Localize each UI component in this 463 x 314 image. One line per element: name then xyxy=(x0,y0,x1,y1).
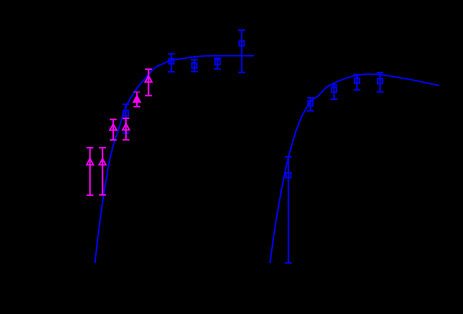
right data point R3 error bar xyxy=(331,85,338,99)
right data point R1 marker (open square) xyxy=(286,173,291,178)
left panel fit curve xyxy=(95,56,254,263)
left data point S4 error bar xyxy=(214,58,221,69)
left magenta point T4 marker (open triangle) xyxy=(123,124,130,130)
left data point S2 marker (open square) xyxy=(169,59,174,64)
left data point S2 error bar xyxy=(168,54,175,72)
left data point S1 error bar xyxy=(122,104,129,133)
left magenta point T2 error bar xyxy=(99,148,106,195)
right data point R5 error bar xyxy=(377,73,384,92)
left magenta point T5 error bar xyxy=(145,69,152,95)
right data point R2 error bar xyxy=(307,98,314,111)
left data point S3 error bar xyxy=(191,60,198,72)
right data point R4 error bar xyxy=(354,75,361,90)
left magenta point T3 marker (open triangle) xyxy=(110,124,117,130)
left magenta point T1 error bar xyxy=(87,148,94,196)
left data point S4 marker (open square) xyxy=(215,60,220,65)
left magenta point F1 marker (filled triangle) xyxy=(134,96,141,102)
right data point R5 marker (open square) xyxy=(378,79,383,84)
right data point R4 marker (open square) xyxy=(355,78,360,83)
left magenta point F1 error bar xyxy=(134,92,141,107)
right data point R1 error bar xyxy=(285,157,292,263)
left magenta point T2 marker (open triangle) xyxy=(99,159,106,165)
left data point S1 marker (open square) xyxy=(123,111,128,116)
left magenta point T1 marker (open triangle) xyxy=(87,159,94,165)
left data point S3 marker (open square) xyxy=(192,63,197,68)
left magenta point T3 error bar xyxy=(110,119,117,139)
right panel fit curve xyxy=(270,74,439,263)
left magenta point T5 marker (open triangle) xyxy=(145,76,152,82)
left data point S5 marker (open square) xyxy=(239,41,244,46)
left data point S5 error bar xyxy=(238,30,245,72)
left magenta point T4 error bar xyxy=(123,118,130,140)
right data point R2 marker (open square) xyxy=(308,101,313,106)
right data point R3 marker (open square) xyxy=(332,87,337,92)
